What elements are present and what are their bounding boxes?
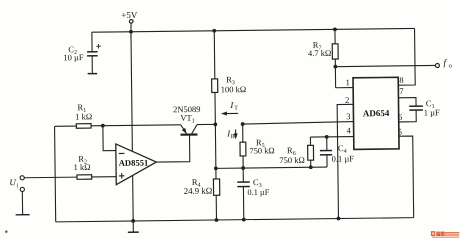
svg-text:o: o	[449, 63, 452, 70]
wire: C4 top lead	[326, 137, 328, 151]
node: pin 2 bottom rail dot	[337, 217, 341, 221]
wire: pin 2 and drop to bottom rail	[337, 104, 355, 218]
capacitor C3 0.1uF	[237, 182, 250, 187]
stray mark bottom left	[5, 230, 8, 233]
wire: collector node down to R4 node	[214, 124, 217, 168]
svg-text:10 µF: 10 µF	[63, 52, 84, 62]
wire: rail down to R7	[334, 29, 336, 43]
svg-text:24.9 kΩ: 24.9 kΩ	[184, 186, 213, 196]
node: C4 top junction dot	[325, 135, 329, 139]
svg-text:1 kΩ: 1 kΩ	[75, 111, 92, 121]
wire: pin 3 (from R5 node)	[243, 122, 354, 125]
wire: +5V top rail	[92, 28, 415, 32]
wire: R7 down to pin 1	[334, 59, 336, 88]
svg-text:i: i	[17, 182, 19, 189]
minus sign (inverting input)	[119, 152, 125, 154]
node: C3 top junction dot	[241, 166, 245, 170]
node: R4 bottom rail dot	[215, 218, 219, 222]
wire: op-amp V+ from rail	[131, 32, 132, 151]
wire: R6 top lead to pin 4 wire	[309, 137, 311, 145]
node: R3 rail junction dot	[212, 29, 216, 33]
wire: pin 6 to C1	[399, 110, 417, 122]
svg-text:6: 6	[398, 112, 402, 122]
resistor R4 24.9k (vertical box)	[213, 179, 219, 195]
resistor R5 750k (vertical box)	[240, 142, 246, 156]
svg-text:1 µF: 1 µF	[424, 107, 440, 117]
node: R4 top junction dot	[214, 166, 218, 170]
svg-text:4: 4	[347, 125, 352, 135]
wire: R3 to collector node	[214, 92, 216, 124]
watermark logo	[431, 231, 459, 238]
node: collector junction dot	[213, 122, 217, 126]
svg-text:7: 7	[399, 86, 403, 96]
capacitor C1 1uF	[409, 106, 423, 110]
svg-text:3: 3	[346, 111, 350, 121]
resistor R3 100k (vertical box)	[212, 79, 218, 93]
ground (bottom rail)	[128, 221, 139, 232]
plus sign (non-inverting input)	[119, 173, 125, 179]
wire: C2 branch from rail	[91, 32, 93, 52]
wire: mid horizontal (R4 node to C4 bottom)	[216, 167, 327, 168]
wire: R6 bottom lead	[310, 160, 312, 167]
wire: rail down to R3	[213, 31, 216, 79]
svg-text:f: f	[443, 57, 447, 67]
output terminal fo	[435, 64, 439, 68]
node: C3 bottom rail dot	[242, 218, 246, 222]
node: inverting input tap dot	[101, 124, 105, 128]
node: R5 top junction dot	[241, 122, 245, 126]
svg-text:5: 5	[398, 126, 402, 136]
wire: left node to R1	[55, 125, 77, 127]
capacitor C2 10uF (polarized)	[87, 44, 101, 74]
IC U2 AD654 (box)	[353, 77, 399, 149]
wire: fo output wire	[335, 65, 435, 66]
arrow IT (pointing left)	[221, 111, 238, 115]
svg-text:1: 1	[346, 77, 350, 87]
ground (input)	[16, 214, 30, 216]
svg-text:1 kΩ: 1 kΩ	[74, 162, 91, 172]
arrow IB (pointing down)	[234, 129, 238, 139]
node: +5V rail junction dot	[129, 30, 133, 34]
wire: +5V terminal to top rail	[130, 23, 132, 32]
wire: down to R4	[215, 168, 217, 179]
svg-text:0.1 µF: 0.1 µF	[247, 188, 269, 197]
transistor Q1 2N5089	[180, 125, 197, 135]
wire: C4 bottom lead (corner from mid wire)	[326, 155, 328, 167]
node: R6 bottom junction dot	[309, 165, 313, 169]
input terminal Ui	[20, 176, 24, 192]
wire: collector to R3 node	[197, 123, 215, 125]
svg-text:750 kΩ: 750 kΩ	[279, 155, 305, 165]
svg-text:VT1: VT1	[180, 113, 194, 125]
wire: pin 8 up to rail	[398, 28, 416, 85]
resistor R7 4.7k (vertical box)	[332, 44, 338, 59]
wire: Ui lower terminal to ground	[21, 191, 23, 214]
op-amp U1 AD8551 (triangle)	[116, 143, 157, 184]
wire: pin 1	[336, 87, 353, 89]
resistor R1 1k (horizontal box)	[76, 124, 91, 129]
node: op-amp V- bottom rail dot	[131, 219, 135, 223]
wire: op-amp V- to bottom rail	[132, 176, 135, 221]
svg-text:8: 8	[399, 75, 403, 85]
wire: tap down to op-amp inverting input	[103, 126, 116, 151]
wire: pin 4	[310, 136, 353, 139]
resistor R6 750k (vertical box)	[308, 145, 314, 160]
wire: C3 to bottom rail	[242, 187, 244, 220]
svg-text:T: T	[234, 106, 238, 112]
svg-text:AD654: AD654	[363, 108, 390, 118]
capacitor C4 0.1uF	[320, 150, 332, 154]
wire: base lead down and to op-amp output	[156, 135, 190, 162]
wire: pin 5 down to bottom rail	[399, 136, 414, 218]
svg-text:U: U	[9, 177, 16, 187]
wire: down to R5	[242, 124, 244, 142]
node: fo tap junction dot	[333, 65, 337, 69]
svg-text:750 kΩ: 750 kΩ	[249, 146, 274, 155]
wire: R4 to bottom rail	[215, 195, 217, 220]
wire: R5 to mid wire	[242, 156, 244, 168]
svg-text:100 kΩ: 100 kΩ	[221, 84, 247, 94]
resistor R2 1k (horizontal box)	[77, 175, 92, 180]
svg-text:AD8551: AD8551	[119, 158, 149, 168]
wire: R2 to op-amp non-inverting input	[92, 176, 116, 178]
wire: Ui to R2	[24, 176, 77, 179]
svg-text:+5V: +5V	[121, 10, 138, 20]
wire: down to C3	[242, 168, 244, 182]
wire: R1 to transistor emitter	[91, 125, 181, 126]
+5V supply terminal	[121, 10, 138, 23]
wire: pin 7 to C1	[398, 98, 416, 107]
wire: bottom common rail	[56, 218, 414, 222]
svg-text:0.1 µF: 0.1 µF	[332, 153, 355, 163]
wire: left feedback rail	[55, 126, 56, 222]
node: R7 rail junction dot	[333, 27, 337, 31]
svg-text:2: 2	[345, 95, 349, 105]
svg-text:4.7 kΩ: 4.7 kΩ	[308, 48, 331, 58]
